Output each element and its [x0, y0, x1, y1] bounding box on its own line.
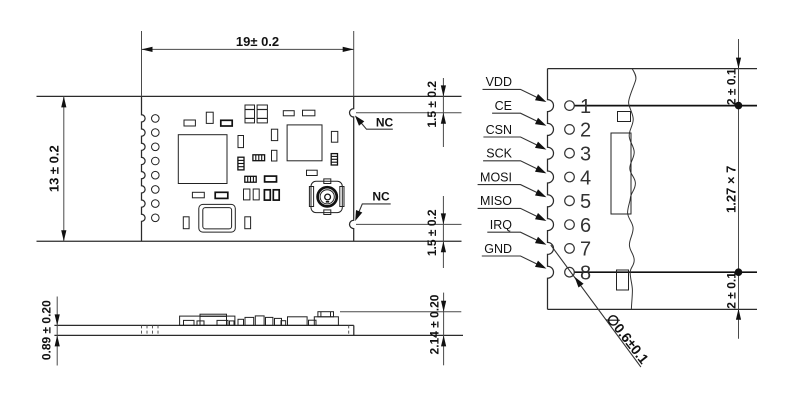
svg-text:7: 7 [580, 239, 591, 261]
IC U2 [287, 125, 322, 161]
side view small parts row 1 [184, 320, 235, 325]
dimension 1.5±0.2 top extension line [356, 112, 462, 114]
capacitor C8 [271, 129, 277, 140]
pin label IRQ [487, 218, 546, 245]
capacitor C5 [303, 110, 315, 116]
pin pads 1-8 [565, 101, 575, 111]
svg-text:GND: GND [484, 242, 512, 256]
svg-text:∅0.6±0.1: ∅0.6±0.1 [603, 311, 652, 367]
svg-text:2 ± 0.1: 2 ± 0.1 [724, 68, 738, 105]
IPEX antenna connector J1 [309, 179, 344, 215]
capacitor C4 [283, 111, 294, 116]
dimension 19±0.2 line [142, 47, 354, 52]
capacitor C2 [206, 112, 213, 123]
side view crystal profile [200, 314, 227, 325]
dimension 1.5±0.2 top line [441, 78, 446, 147]
pin-out inner component rect bottom [617, 270, 629, 290]
pin-out inner component rect top [618, 112, 631, 122]
dimension dot pin8 [735, 268, 743, 276]
capacitor C6 [331, 131, 337, 142]
pin 1 row line [574, 105, 757, 107]
dimension 2.14±0.20 line [441, 293, 446, 366]
pin-out view left castellated edge [548, 69, 554, 310]
svg-text:SCK: SCK [486, 147, 512, 161]
dimension 19±0.2 extension lines [142, 31, 354, 96]
svg-text:2.14 ± 0.20: 2.14 ± 0.20 [428, 294, 442, 354]
hole diameter callout leader [551, 245, 641, 367]
dimension arrow bottom [736, 309, 741, 320]
svg-text:IRQ: IRQ [490, 218, 513, 232]
capacitor C11 [192, 192, 204, 198]
side view mid parts [238, 316, 282, 326]
svg-text:VDD: VDD [486, 75, 512, 89]
inductor L2 [257, 105, 267, 123]
capacitor C15 [264, 190, 270, 200]
pin label SCK [483, 147, 546, 174]
capacitor C7 [238, 136, 244, 148]
crystal Y1 [199, 204, 236, 232]
side view board top line [54, 324, 353, 326]
svg-text:8: 8 [580, 263, 591, 285]
svg-text:3: 3 [580, 144, 591, 166]
svg-text:19± 0.2: 19± 0.2 [236, 34, 279, 49]
svg-text:NC: NC [376, 115, 394, 129]
capacitor C3 [221, 120, 232, 126]
resistor R4 [245, 176, 256, 182]
svg-text:1: 1 [580, 96, 591, 118]
resistor R1 [331, 154, 337, 165]
svg-text:MOSI: MOSI [480, 170, 512, 184]
IC U1 [178, 135, 227, 184]
resistor R3 [238, 157, 244, 170]
svg-text:4: 4 [580, 167, 591, 189]
svg-text:13 ± 0.2: 13 ± 0.2 [47, 145, 62, 192]
NC callout top [355, 115, 394, 129]
capacitor C12 [215, 192, 228, 198]
dimension 0.89±0.20 line [55, 297, 60, 366]
PCB bottom edge / extension line [37, 240, 462, 242]
capacitor C10 [265, 176, 277, 182]
pin label MOSI [478, 170, 547, 197]
capacitor C9 [272, 150, 277, 161]
side view hidden NC line [348, 325, 350, 335]
inductor L1 [245, 105, 255, 123]
capacitor C13 [244, 189, 250, 200]
side view hidden castellation lines [142, 325, 159, 335]
PCB top edge / extension line [37, 95, 462, 97]
capacitor C16 [273, 190, 279, 200]
dimension 1.5±0.2 bottom extension line [356, 223, 462, 225]
svg-text:MISO: MISO [480, 194, 512, 208]
side view IC U2 profile [288, 317, 308, 326]
svg-text:1.5 ± 0.2: 1.5 ± 0.2 [425, 209, 439, 256]
dimension 13±0.2 line [61, 96, 66, 241]
capacitor C14 [253, 189, 259, 200]
pin-out view bottom edge / extension line [548, 308, 758, 310]
capacitor C18 [245, 217, 251, 229]
pin label CE [492, 99, 546, 126]
pin label MISO [478, 194, 547, 221]
pin-out inner component rect tall [611, 133, 631, 214]
svg-text:CSN: CSN [486, 123, 512, 137]
side view small part [281, 321, 286, 326]
side view board bottom line [54, 334, 463, 336]
resistor R2 [253, 155, 265, 161]
pin label VDD [483, 75, 547, 102]
through-hole pads column [152, 115, 160, 123]
dimension dot pin1 [735, 102, 743, 110]
side view board right edge [353, 325, 355, 335]
right dimension line vertical [738, 39, 740, 339]
PCB top view outline: right edge with NC notches [350, 96, 354, 241]
pin label CSN [483, 123, 546, 150]
side view IC U1 profile [180, 316, 235, 325]
NC callout bottom [355, 190, 391, 221]
capacitor C19 [307, 170, 318, 175]
pin-out view top edge / extension line [548, 68, 758, 70]
dimension 2.14±0.20 extension line [340, 311, 461, 313]
break line (wavy) [628, 69, 636, 310]
pin 8 row line [574, 271, 757, 273]
svg-text:2 ± 0.1: 2 ± 0.1 [724, 272, 738, 309]
dimension 1.5±0.2 bottom line [441, 196, 446, 268]
svg-text:2: 2 [580, 120, 591, 142]
dimension arrow top [736, 58, 741, 69]
PCB top view outline: left castellated edge [142, 96, 146, 241]
svg-text:1.5 ± 0.2: 1.5 ± 0.2 [425, 81, 439, 128]
svg-text:5: 5 [580, 191, 591, 213]
pin label GND [482, 242, 547, 269]
side view small part 2 [309, 320, 317, 325]
side view IPEX profile [314, 312, 338, 326]
capacitor C17 [183, 217, 189, 229]
svg-text:1.27 × 7: 1.27 × 7 [723, 166, 738, 213]
svg-text:6: 6 [580, 215, 591, 237]
svg-text:CE: CE [495, 99, 512, 113]
svg-text:NC: NC [372, 190, 390, 204]
svg-text:0.89 ± 0.20: 0.89 ± 0.20 [40, 300, 54, 360]
capacitor C1 [184, 120, 195, 126]
